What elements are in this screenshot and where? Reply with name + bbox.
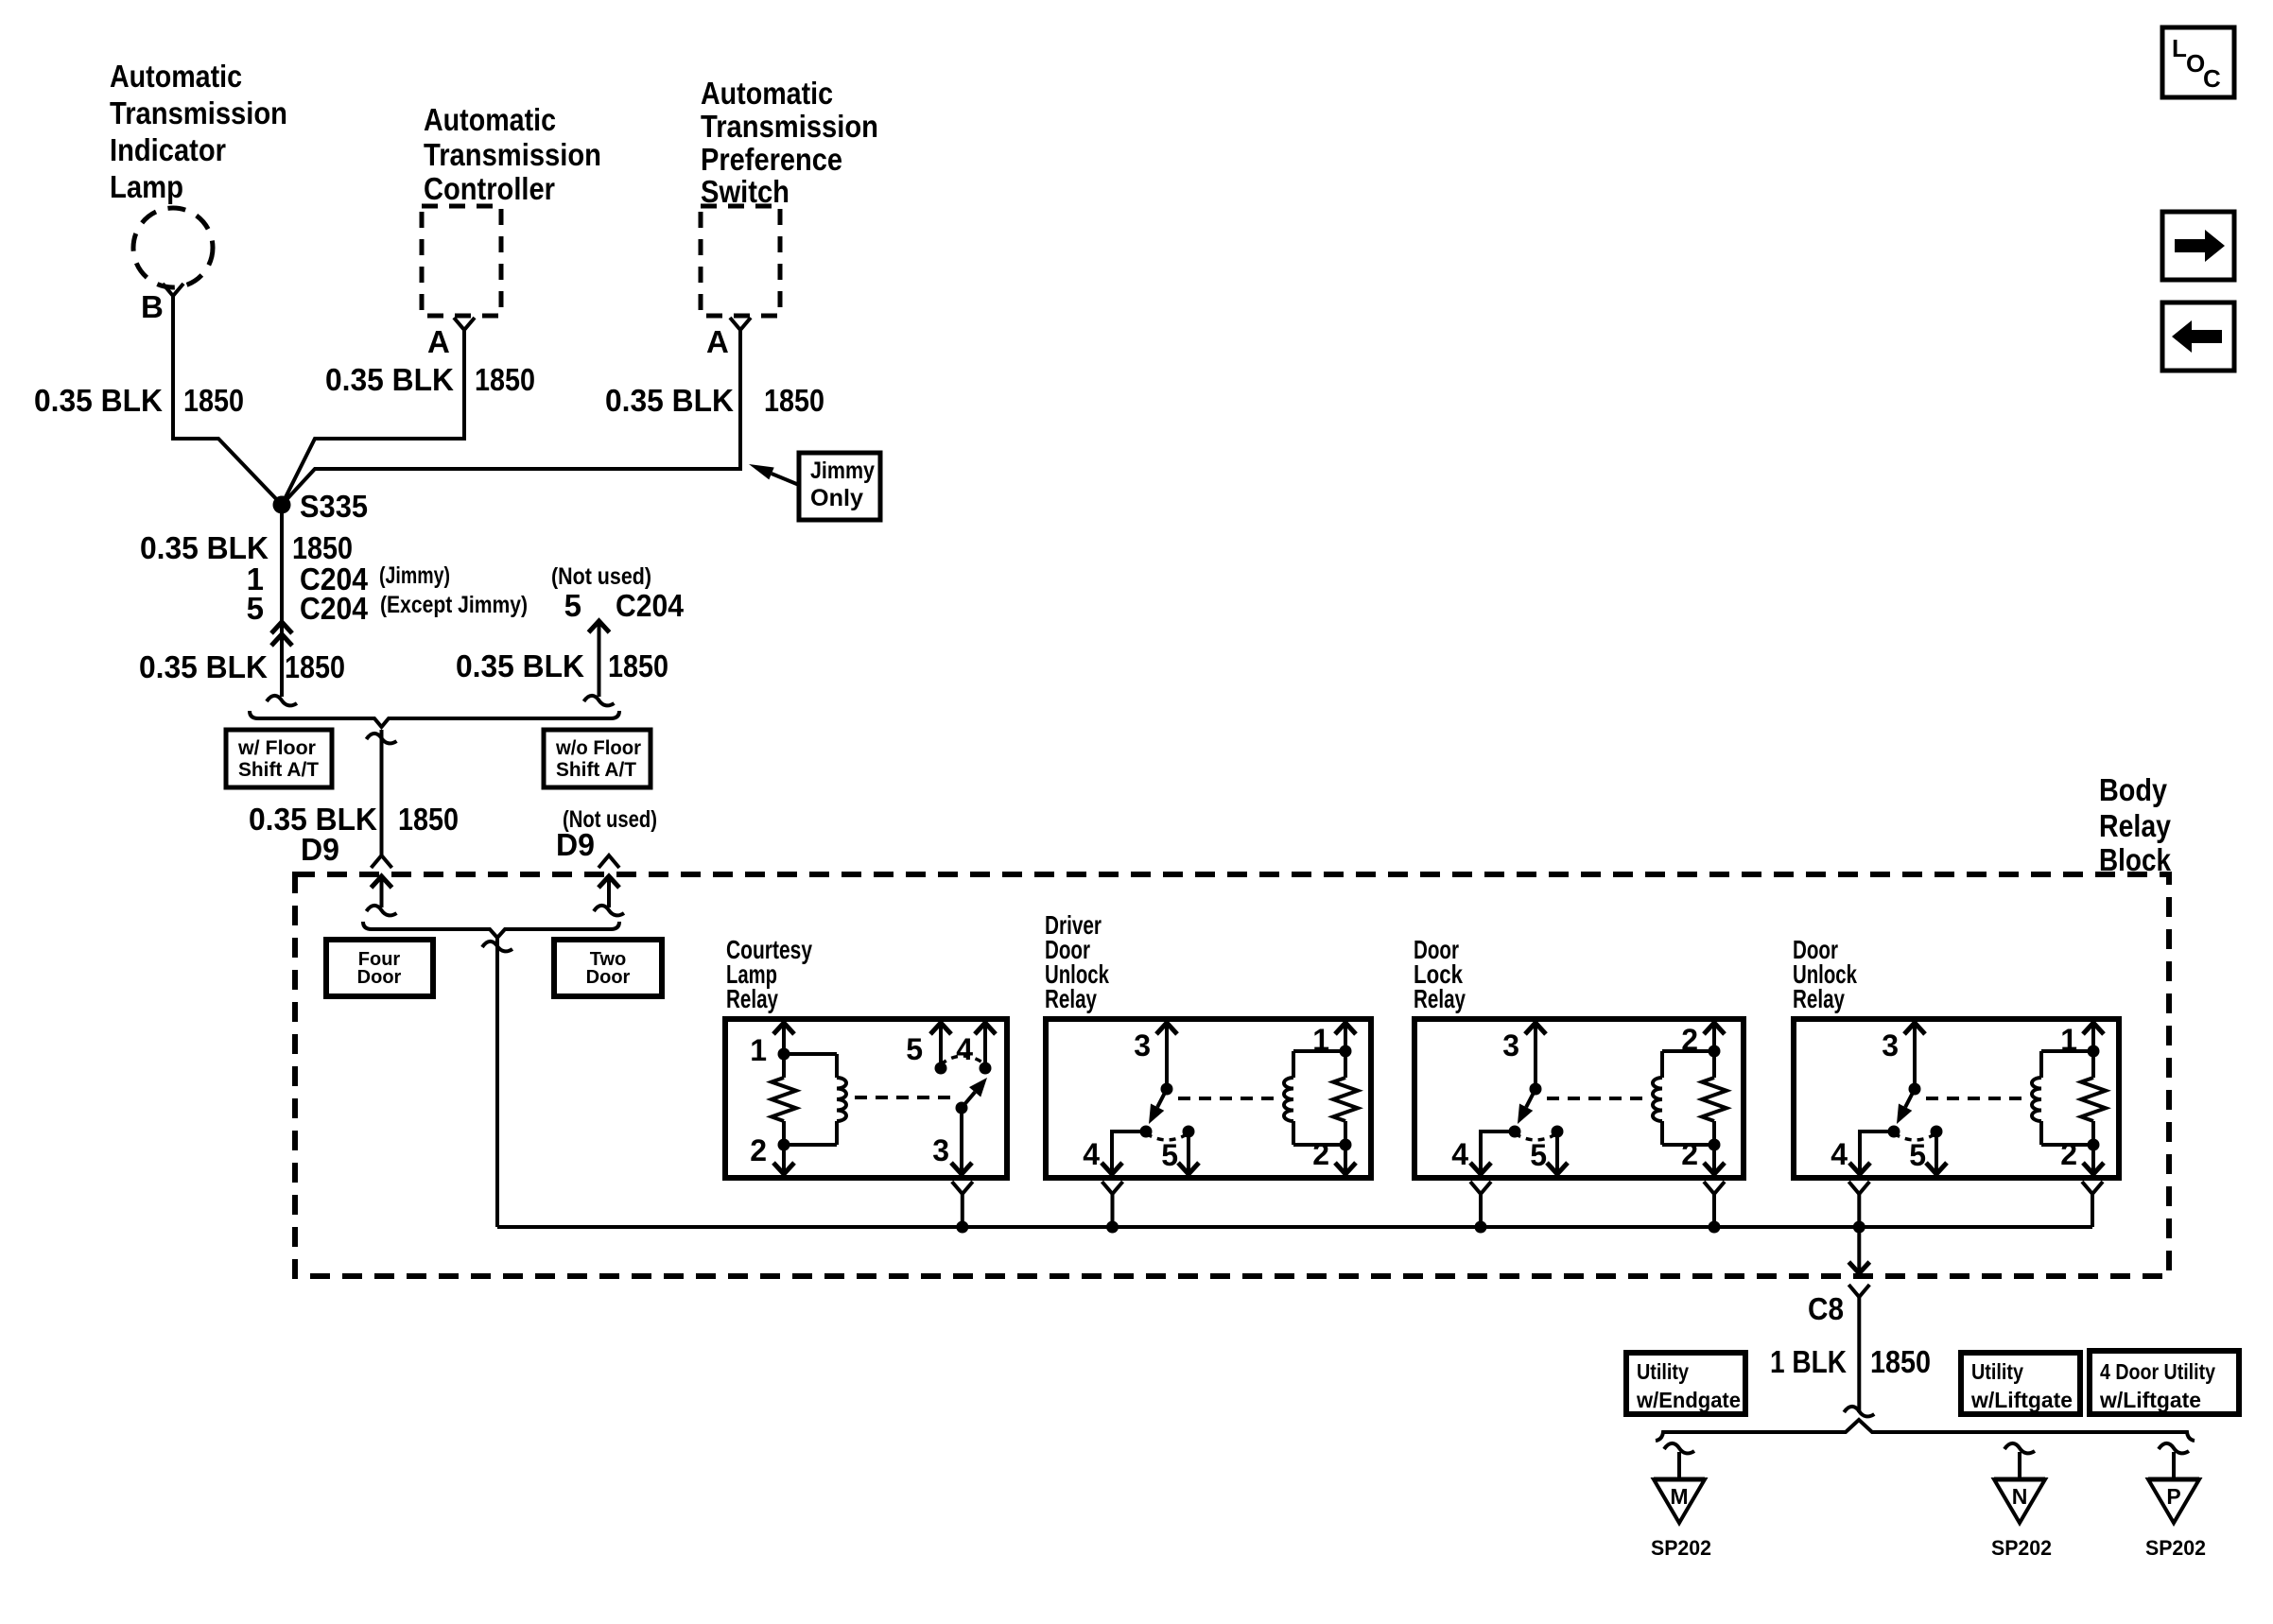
svg-text:Door: Door (357, 967, 402, 988)
door unlock relay K4: coil branch pins 1/2 (2032, 1078, 2041, 1121)
svg-text:2: 2 (750, 1133, 767, 1167)
svg-text:Transmission: Transmission (701, 109, 878, 144)
svg-text:4: 4 (1451, 1137, 1468, 1171)
controller U1 (dashed box) (422, 206, 501, 316)
svg-text:S335: S335 (300, 489, 368, 524)
svg-text:SP202: SP202 (1651, 1536, 1711, 1560)
svg-text:1850: 1850 (475, 362, 535, 397)
door unlock relay K4: dashed actuation link (1926, 1097, 2027, 1100)
svg-text:w/Endgate: w/Endgate (1636, 1388, 1741, 1412)
svg-text:4: 4 (1831, 1137, 1848, 1171)
option box: 4 Door Utility w/Liftgate (2090, 1351, 2239, 1414)
options brace (C204 merge) (250, 711, 619, 727)
arrow from Jimmy Only box to wire (772, 474, 799, 485)
svg-text:1850: 1850 (285, 649, 345, 684)
svg-text:Controller: Controller (424, 171, 555, 206)
driver door unlock relay K2: dashed actuation link (1178, 1097, 1279, 1100)
door lock relay K3: coil branch pins 2/2 (1653, 1078, 1662, 1121)
svg-text:w/o Floor: w/o Floor (555, 737, 641, 759)
svg-text:Relay: Relay (2099, 808, 2172, 843)
relay box (door unlock relay K4) (1794, 1019, 2119, 1178)
svg-text:Lamp: Lamp (110, 169, 183, 204)
svg-text:1850: 1850 (1870, 1344, 1931, 1379)
Body Relay Block boundary (dashed) (295, 874, 2169, 1276)
svg-text:Utility: Utility (1971, 1359, 2023, 1384)
splice branch N to SP202 (2004, 1443, 2035, 1454)
svg-text:Relay: Relay (1793, 984, 1845, 1013)
svg-text:5: 5 (247, 591, 264, 626)
svg-text:1850: 1850 (764, 383, 824, 418)
svg-text:M: M (1670, 1484, 1688, 1509)
svg-text:0.35 BLK: 0.35 BLK (325, 362, 454, 397)
nav box: arrow right (2162, 212, 2234, 280)
svg-text:0.35 BLK: 0.35 BLK (139, 649, 268, 684)
svg-text:1850: 1850 (608, 648, 668, 683)
callout box: Jimmy Only (799, 453, 880, 520)
svg-text:0.35 BLK: 0.35 BLK (140, 530, 269, 565)
svg-text:Automatic: Automatic (110, 59, 242, 94)
svg-text:Relay: Relay (1414, 984, 1466, 1013)
K4 pin2 connector to bus end (2082, 1182, 2103, 1194)
in-line connector chevrons on wire (C204) (271, 622, 292, 633)
legend box LOC (2162, 27, 2234, 97)
svg-text:Shift A/T: Shift A/T (556, 759, 636, 781)
svg-text:Transmission: Transmission (424, 137, 601, 172)
svg-text:Preference: Preference (701, 142, 842, 177)
svg-text:N: N (2012, 1484, 2028, 1509)
svg-text:Automatic: Automatic (701, 76, 833, 111)
svg-text:Utility: Utility (1637, 1359, 1689, 1384)
svg-text:w/Liftgate: w/Liftgate (1970, 1388, 2073, 1412)
splice brace to SP202 branches (1656, 1420, 2195, 1441)
option box: Utility w/Endgate (1626, 1353, 1745, 1414)
svg-text:2: 2 (2060, 1137, 2077, 1171)
svg-text:C8: C8 (1808, 1291, 1844, 1326)
svg-text:1850: 1850 (292, 530, 353, 565)
option box: w/o Floor Shift A/T (544, 730, 651, 787)
svg-text:C: C (2203, 64, 2221, 93)
wire from brace A down to D9 (380, 730, 384, 855)
svg-text:5: 5 (906, 1032, 923, 1066)
option box: Utility w/Liftgate (1961, 1353, 2080, 1414)
K1 dashed actuation link (855, 1096, 957, 1099)
svg-text:Automatic: Automatic (424, 102, 556, 137)
K2 output connector to bus (1102, 1182, 1123, 1194)
svg-text:(Except Jimmy): (Except Jimmy) (380, 592, 528, 618)
relay K1 box (Courtesy Lamp Relay) (725, 1019, 1007, 1178)
door lock relay K3: dashed actuation link (1547, 1097, 1648, 1100)
splice branch M to SP202 (1664, 1443, 1694, 1454)
svg-text:Indicator: Indicator (110, 132, 226, 167)
wire below S335 (280, 505, 284, 697)
svg-text:P: P (2166, 1484, 2180, 1509)
svg-text:w/Liftgate: w/Liftgate (2099, 1388, 2201, 1412)
svg-text:3: 3 (1134, 1028, 1151, 1063)
svg-text:5: 5 (1161, 1138, 1178, 1172)
svg-text:4: 4 (1083, 1137, 1100, 1171)
svg-text:SP202: SP202 (1991, 1536, 2052, 1560)
svg-text:Switch: Switch (701, 174, 789, 209)
splice branch P to SP202 (2159, 1443, 2189, 1454)
svg-text:1: 1 (2060, 1023, 2077, 1057)
wire: controller A to S335 (282, 330, 464, 505)
svg-text:1850: 1850 (398, 802, 459, 837)
svg-text:B: B (141, 289, 164, 324)
svg-text:L: L (2172, 34, 2187, 62)
wire: C8 to splice brace (1857, 1297, 1861, 1412)
relay box (door lock relay K3) (1414, 1019, 1744, 1178)
relay box (driver door unlock relay K2) (1046, 1019, 1371, 1178)
K1 output connector to bus (952, 1182, 973, 1194)
svg-text:A: A (706, 324, 729, 359)
preference switch S1 (dashed box) (701, 206, 780, 316)
option box: w/ Floor Shift A/T (226, 730, 332, 787)
svg-text:Door: Door (586, 967, 631, 988)
svg-text:2: 2 (1312, 1137, 1329, 1171)
svg-text:Transmission: Transmission (110, 95, 287, 130)
svg-text:1 BLK: 1 BLK (1770, 1344, 1847, 1379)
svg-text:3: 3 (932, 1133, 949, 1167)
svg-text:0.35 BLK: 0.35 BLK (605, 383, 734, 418)
svg-text:(Not used): (Not used) (551, 563, 651, 590)
K4 pin4 connector to bus (1848, 1182, 1869, 1194)
svg-text:Jimmy: Jimmy (810, 458, 875, 484)
svg-text:3: 3 (1502, 1028, 1519, 1063)
svg-text:D9: D9 (556, 827, 595, 862)
driver door unlock relay K2: coil branch pins 1/2 (1284, 1078, 1293, 1121)
connector halves at D9 left (372, 855, 392, 868)
svg-text:5: 5 (1530, 1138, 1547, 1172)
svg-text:0.35 BLK: 0.35 BLK (456, 648, 584, 683)
svg-text:SP202: SP202 (2145, 1536, 2206, 1560)
wire: relay ground bus (497, 1225, 2092, 1229)
wire: bus to C8 (1857, 1227, 1861, 1273)
svg-text:D9: D9 (301, 832, 339, 867)
svg-text:0.35 BLK: 0.35 BLK (34, 383, 163, 418)
K3 pin2 connector to bus (1704, 1182, 1725, 1194)
svg-text:A: A (427, 324, 450, 359)
svg-text:1850: 1850 (183, 383, 244, 418)
svg-text:1: 1 (1312, 1023, 1329, 1057)
svg-text:Relay: Relay (1045, 984, 1097, 1013)
svg-text:C204: C204 (616, 588, 685, 623)
splice node S335 (273, 496, 291, 514)
svg-text:w/ Floor: w/ Floor (237, 737, 316, 759)
svg-text:5: 5 (1909, 1138, 1926, 1172)
svg-text:4: 4 (956, 1032, 973, 1066)
lamp L1 (dashed circle) (133, 208, 213, 287)
svg-text:3: 3 (1882, 1028, 1899, 1063)
svg-text:Only: Only (810, 485, 863, 511)
connector halves at D9 right (not used) (599, 855, 619, 868)
nav box: arrow left (2162, 302, 2234, 371)
svg-text:1: 1 (750, 1033, 767, 1067)
svg-text:Relay: Relay (726, 984, 778, 1013)
option box: Four Door (326, 940, 433, 996)
svg-text:C204: C204 (300, 591, 369, 626)
option box: Two Door (554, 940, 662, 996)
svg-text:2: 2 (1681, 1023, 1698, 1057)
svg-text:2: 2 (1681, 1137, 1698, 1171)
svg-text:Body: Body (2099, 772, 2168, 807)
wire: lamp B to S335 (173, 296, 282, 505)
svg-text:4 Door Utility: 4 Door Utility (2100, 1359, 2215, 1384)
svg-text:Shift A/T: Shift A/T (238, 759, 319, 781)
options brace (Four/Two Door) (363, 922, 619, 938)
svg-text:(Jimmy): (Jimmy) (379, 562, 450, 589)
wire from brace B to relay bus (495, 938, 499, 1227)
wire: preference switch A to S335 (282, 330, 740, 505)
K3 pin4 connector to bus (1470, 1182, 1491, 1194)
svg-text:5: 5 (564, 588, 581, 623)
